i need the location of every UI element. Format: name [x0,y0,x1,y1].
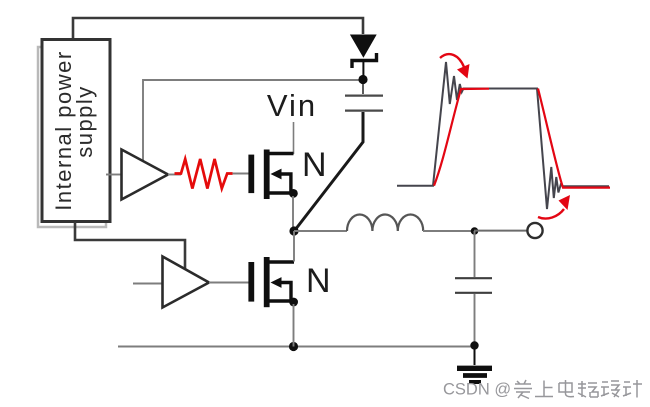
wire switch node to inductor [294,230,347,232]
capacitor C1 (bootstrap) [345,84,383,111]
capacitor C2 (output) [455,278,492,345]
wire output node to C2 [474,231,476,277]
output terminal (open circle) [527,223,542,238]
internal power supply box U3 [38,40,110,228]
annotation arrow (rising edge ringing) [440,54,470,78]
waveform red damped trace (rising edge) [434,89,489,186]
waveform red damped trace (falling edge) [538,89,610,188]
svg-text:CSDN @: CSDN @ [443,381,511,399]
buffer U1 (high-side driver) [106,150,181,200]
wire Vin to Q1 drain [293,122,295,154]
transistor Q2 (low-side N-MOSFET) [248,257,298,307]
node Q2 source on rail [289,342,298,351]
buffer U2 (low-side driver) [133,257,249,308]
svg-text:supply: supply [72,85,97,158]
ground rail [118,346,475,348]
wire Q1 source to switch node [292,196,294,231]
node C2 to ground [470,341,478,349]
wire bootstrap node to buffer U1 supply [143,80,363,161]
wire supply box to buffer U2 supply [75,222,185,269]
inductor L1 [347,214,423,231]
diode D1 (schottky bootstrap) [350,35,377,78]
watermark CJK characters [514,380,642,399]
label N (Q2) [306,262,331,300]
transistor Q1 (high-side N-MOSFET) [248,150,297,200]
svg-text:N: N [306,262,331,300]
wire C1 to switch node (diagonal) [295,112,363,230]
annotation arrow (falling edge ringing) [538,195,570,219]
wire inductor to output node [423,230,474,232]
waveform plot: switch node voltage with ringing [397,62,609,209]
resistor R1 (red gate resistor) [175,159,233,189]
label N (Q1) [302,146,327,184]
svg-text:Vin: Vin [267,88,317,123]
node SW (switch node) [289,226,298,235]
svg-text:N: N [302,146,327,184]
wire top rail from supply to diode [73,18,363,39]
watermark CSDN [443,381,511,399]
wire output node to terminal [474,230,527,232]
node bootstrap (diode cathode) [358,75,367,84]
wire resistor to Q1 gate [233,173,249,175]
label Vin [267,88,317,123]
wire switch node to Q2 drain [293,231,295,262]
wire Q2 source to ground rail [293,304,295,347]
ground symbol [457,348,492,382]
node Vout [471,227,479,235]
